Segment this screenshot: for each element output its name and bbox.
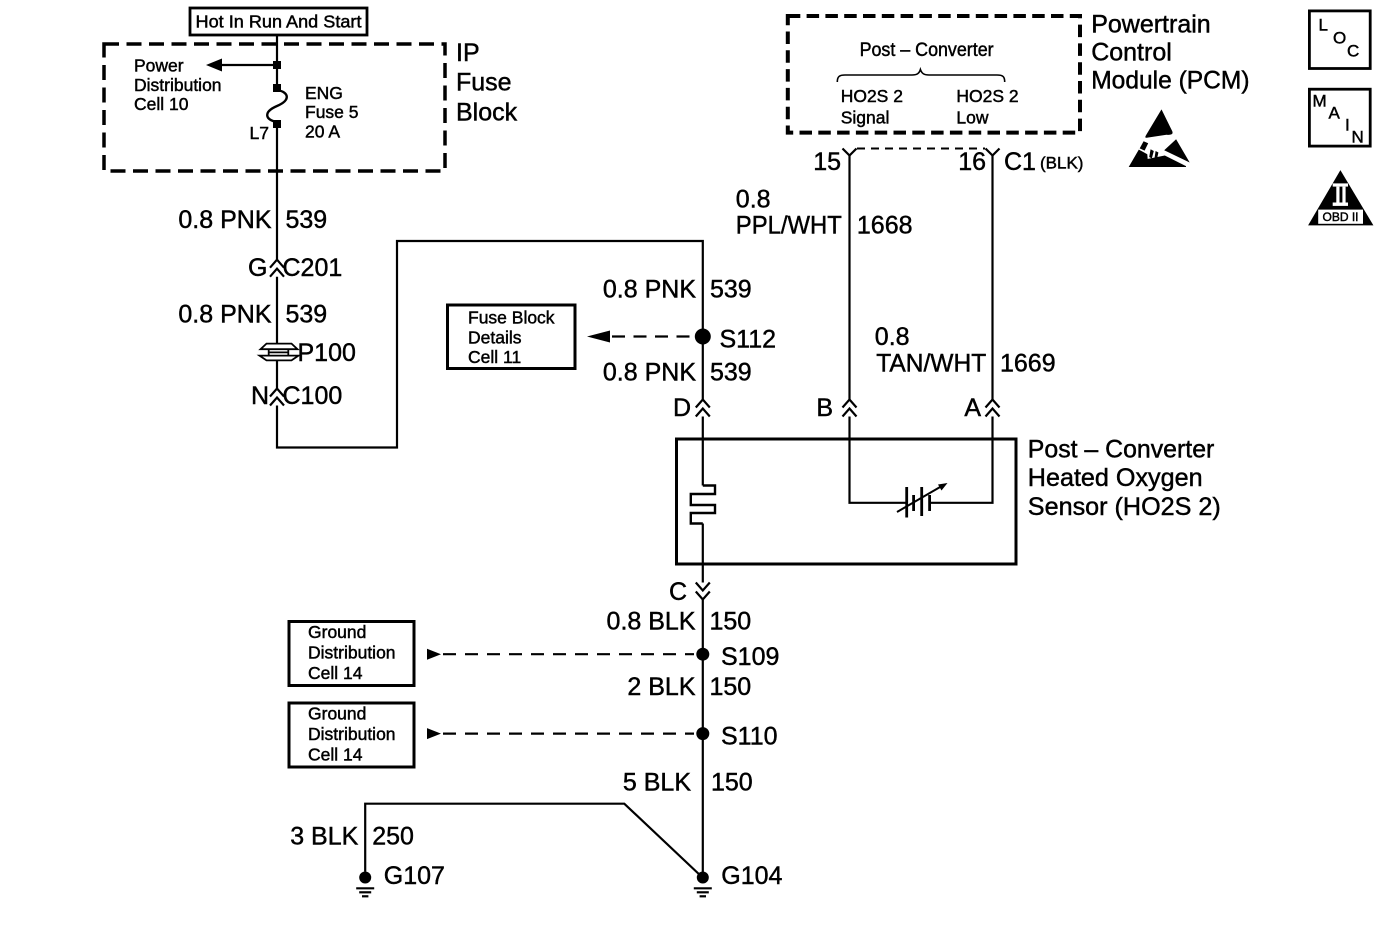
label Power Distribution Cell 10 bbox=[134, 56, 222, 115]
fuse F5 ENG 20A bbox=[267, 84, 287, 128]
svg-text:Ground: Ground bbox=[308, 622, 366, 642]
ESD symbol bbox=[1129, 109, 1190, 167]
svg-text:C100: C100 bbox=[283, 382, 343, 410]
connector C1 dashed edge bbox=[857, 148, 985, 150]
svg-text:Cell 14: Cell 14 bbox=[308, 663, 363, 683]
svg-text:A: A bbox=[1329, 104, 1341, 123]
svg-text:Signal: Signal bbox=[841, 108, 890, 128]
arrow to Power Distribution bbox=[206, 59, 277, 72]
wire from Hot In Run to fuse bbox=[276, 35, 278, 88]
svg-text:Fuse 5: Fuse 5 bbox=[305, 102, 359, 122]
svg-text:Ground: Ground bbox=[308, 704, 366, 724]
svg-text:I: I bbox=[1345, 116, 1350, 135]
label 0.8 PPL/WHT 1668 bbox=[736, 186, 913, 240]
svg-text:15: 15 bbox=[813, 148, 841, 176]
Ground Distribution Cell 14 box 1 bbox=[289, 622, 414, 686]
svg-text:Cell 11: Cell 11 bbox=[468, 347, 521, 367]
svg-text:G: G bbox=[248, 254, 267, 282]
wire C201 to P100 bbox=[276, 277, 278, 343]
label Powertrain Control Module (PCM) bbox=[1091, 10, 1249, 94]
svg-text:150: 150 bbox=[711, 769, 753, 797]
svg-text:HO2S 2: HO2S 2 bbox=[956, 86, 1018, 106]
connector pin C bbox=[696, 583, 710, 600]
svg-text:539: 539 bbox=[710, 276, 752, 304]
grommet P100 bbox=[260, 344, 299, 361]
Ground Distribution Cell 14 box 2 bbox=[289, 703, 414, 767]
svg-text:0.8 PNK: 0.8 PNK bbox=[603, 359, 696, 387]
svg-text:Distribution: Distribution bbox=[308, 724, 396, 744]
MAIN icon bbox=[1309, 89, 1370, 146]
label 0.8 TAN/WHT 1669 bbox=[875, 323, 1056, 377]
svg-text:Distribution: Distribution bbox=[134, 75, 222, 95]
svg-text:Module (PCM): Module (PCM) bbox=[1091, 67, 1249, 95]
svg-text:S112: S112 bbox=[720, 326, 777, 354]
svg-text:0.8 BLK: 0.8 BLK bbox=[607, 608, 696, 636]
svg-text:Post – Converter: Post – Converter bbox=[1028, 435, 1215, 463]
label 2 BLK 150 bbox=[627, 673, 751, 701]
wire C100 to S112 via corners bbox=[277, 241, 703, 448]
wire heater to C bbox=[702, 524, 704, 583]
svg-text:150: 150 bbox=[710, 673, 752, 701]
pin 15 bbox=[813, 148, 856, 176]
connector C100 pin N bbox=[270, 389, 284, 406]
svg-text:Block: Block bbox=[456, 99, 518, 127]
svg-text:PPL/WHT: PPL/WHT bbox=[736, 212, 842, 240]
svg-text:Distribution: Distribution bbox=[308, 643, 396, 663]
label 0.8 PNK 539 bbox=[178, 206, 327, 234]
svg-text:O: O bbox=[1333, 29, 1346, 48]
splice S110 bbox=[696, 727, 709, 740]
svg-text:L7: L7 bbox=[250, 123, 269, 143]
connector pin B bbox=[843, 400, 857, 417]
label 0.8 PNK 539 bbox=[603, 359, 752, 387]
wire P100 to C100 bbox=[276, 361, 278, 389]
svg-text:0.8: 0.8 bbox=[736, 186, 771, 214]
svg-text:M: M bbox=[1313, 92, 1327, 111]
connector pin A bbox=[986, 400, 1000, 417]
svg-text:Fuse Block: Fuse Block bbox=[468, 308, 555, 328]
dashed arrow to S109 bbox=[427, 649, 694, 660]
connector pin D bbox=[696, 400, 710, 417]
svg-text:0.8: 0.8 bbox=[875, 323, 910, 351]
svg-text:D: D bbox=[673, 394, 691, 422]
svg-text:S109: S109 bbox=[721, 643, 779, 671]
dashed arrow to Fuse Block Details bbox=[587, 331, 694, 343]
svg-text:Power: Power bbox=[134, 56, 184, 76]
svg-text:Powertrain: Powertrain bbox=[1091, 10, 1211, 38]
label IP Fuse Block bbox=[456, 39, 518, 127]
svg-text:C: C bbox=[669, 578, 687, 606]
ground G107 bbox=[356, 862, 445, 896]
svg-text:Cell 10: Cell 10 bbox=[134, 94, 189, 114]
label Hot In Run And Start bbox=[190, 8, 367, 35]
wire pin 16 to A bbox=[991, 156, 993, 400]
svg-text:N: N bbox=[1352, 128, 1364, 147]
svg-text:5 BLK: 5 BLK bbox=[623, 769, 691, 797]
svg-text:Control: Control bbox=[1091, 38, 1172, 66]
label ENG Fuse 5 20 A bbox=[305, 83, 359, 142]
svg-text:ENG: ENG bbox=[305, 83, 343, 103]
svg-text:20 A: 20 A bbox=[305, 122, 340, 142]
svg-text:N: N bbox=[251, 382, 269, 410]
svg-text:0.8 PNK: 0.8 PNK bbox=[178, 301, 271, 329]
wire B into box bbox=[850, 417, 906, 503]
svg-text:B: B bbox=[816, 394, 833, 422]
ground G104 bbox=[694, 862, 783, 896]
svg-text:150: 150 bbox=[710, 608, 752, 636]
svg-text:539: 539 bbox=[286, 206, 328, 234]
svg-text:P100: P100 bbox=[298, 339, 356, 367]
label C1 (BLK) bbox=[1004, 148, 1083, 176]
label 0.8 PNK 539 bbox=[178, 301, 327, 329]
wire C to G104 bbox=[702, 600, 704, 878]
label HO2S 2 Low bbox=[956, 86, 1018, 128]
svg-text:1669: 1669 bbox=[1000, 349, 1056, 377]
svg-text:Details: Details bbox=[468, 327, 522, 347]
svg-text:OBD II: OBD II bbox=[1322, 210, 1358, 224]
svg-text:Heated Oxygen: Heated Oxygen bbox=[1028, 464, 1203, 492]
svg-text:S110: S110 bbox=[721, 723, 778, 751]
svg-text:L: L bbox=[1319, 16, 1328, 35]
svg-text:Fuse: Fuse bbox=[456, 69, 512, 97]
dashed arrow to S110 bbox=[427, 728, 694, 739]
label Post-Converter Heated Oxygen Sensor bbox=[1028, 435, 1221, 520]
sensing cell variable battery bbox=[907, 487, 930, 518]
svg-text:2 BLK: 2 BLK bbox=[627, 673, 695, 701]
label HO2S 2 Signal bbox=[841, 86, 903, 128]
svg-text:C201: C201 bbox=[283, 254, 343, 282]
brace bbox=[837, 70, 1004, 83]
svg-text:0.8 PNK: 0.8 PNK bbox=[178, 206, 271, 234]
svg-text:1668: 1668 bbox=[857, 212, 913, 240]
LOC icon bbox=[1309, 11, 1370, 69]
IP Fuse Block dashed box bbox=[104, 44, 445, 171]
svg-text:G107: G107 bbox=[384, 862, 445, 890]
svg-text:Cell 14: Cell 14 bbox=[308, 745, 363, 765]
svg-text:Hot In Run And Start: Hot In Run And Start bbox=[196, 12, 362, 32]
svg-text:539: 539 bbox=[286, 301, 328, 329]
connector C201 pin G bbox=[270, 260, 284, 277]
svg-text:250: 250 bbox=[372, 822, 414, 850]
wire fuse to C201 bbox=[276, 124, 278, 260]
splice S112 bbox=[695, 329, 711, 345]
svg-text:Low: Low bbox=[956, 108, 988, 128]
PCM dashed box bbox=[788, 16, 1080, 133]
heater element bbox=[691, 486, 715, 524]
label 3 BLK 250 bbox=[290, 822, 414, 850]
Fuse Block Details Cell 11 box bbox=[448, 305, 576, 369]
wire branch to G107 bbox=[365, 804, 702, 877]
svg-text:(BLK): (BLK) bbox=[1040, 154, 1083, 173]
wire A into box bbox=[931, 417, 993, 503]
pin 16 bbox=[958, 148, 999, 176]
svg-text:IP: IP bbox=[456, 39, 480, 67]
svg-text:TAN/WHT: TAN/WHT bbox=[876, 349, 986, 377]
svg-text:HO2S 2: HO2S 2 bbox=[841, 86, 903, 106]
svg-text:C1: C1 bbox=[1004, 148, 1036, 176]
wire D into sensor box bbox=[702, 417, 704, 486]
svg-text:16: 16 bbox=[958, 148, 986, 176]
label 0.8 PNK 539 bbox=[603, 276, 752, 304]
splice S109 bbox=[696, 648, 709, 661]
svg-text:Sensor (HO2S 2): Sensor (HO2S 2) bbox=[1028, 493, 1221, 521]
junction square bbox=[273, 61, 281, 69]
svg-text:Post – Converter: Post – Converter bbox=[860, 40, 995, 61]
svg-text:G104: G104 bbox=[721, 862, 782, 890]
svg-text:0.8 PNK: 0.8 PNK bbox=[603, 276, 696, 304]
label 5 BLK 150 bbox=[623, 769, 753, 797]
svg-text:3 BLK: 3 BLK bbox=[290, 822, 358, 850]
label 0.8 BLK 150 bbox=[607, 608, 752, 636]
OBD II icon bbox=[1308, 170, 1373, 225]
svg-text:C: C bbox=[1347, 42, 1359, 61]
HO2S 2 sensor box bbox=[677, 439, 1017, 564]
svg-text:A: A bbox=[964, 394, 981, 422]
wire pin 15 to B bbox=[848, 156, 850, 400]
svg-text:539: 539 bbox=[710, 359, 752, 387]
